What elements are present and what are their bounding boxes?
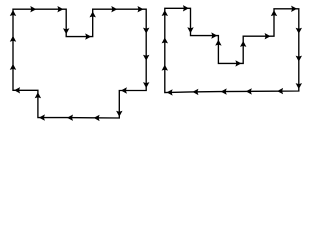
- left polygon arrow right on top edge d: [138, 6, 144, 12]
- right polygon arrow left bottom edge a: [277, 88, 283, 94]
- right polygon arrow up left wall c: [162, 10, 168, 16]
- left polygon arrow left lower-left edge: [14, 87, 20, 93]
- right polygon arrow right mid shelf a: [211, 32, 217, 38]
- right polygon arrow left bottom edge d: [192, 89, 198, 95]
- right polygon arrow right top edge 1: [183, 5, 189, 11]
- right polygon arrow up notch right wall: [240, 41, 246, 47]
- right polygon arrow left bottom edge c: [221, 88, 227, 94]
- left polygon arrow left bottom edge b: [67, 115, 73, 121]
- right polygon arrow left bottom edge b: [246, 88, 252, 94]
- right polygon arrow left bottom edge e: [167, 89, 173, 95]
- right polygon arrow up left wall a: [162, 65, 168, 71]
- left polygon arrow up left edge c: [10, 10, 16, 16]
- left polygon arrow up left edge a: [10, 64, 16, 70]
- left polygon arrow down step right: [116, 111, 122, 117]
- right polygon arrow up to top edge 2: [271, 10, 277, 16]
- left polygon arrow right on top edge c: [111, 6, 117, 12]
- left polygon arrow left bottom edge c: [39, 114, 45, 120]
- right polygon arrow down right edge a: [296, 28, 302, 34]
- right polygon arrow down right edge b: [296, 56, 302, 62]
- left polygon arrow down right edge b: [143, 55, 149, 61]
- left polygon arrow right notch bottom: [85, 33, 91, 39]
- right polygon arrow right top edge 2: [291, 6, 297, 12]
- left polygon arrow down right edge a: [143, 28, 149, 34]
- right polygon arrow right notch bottom: [235, 60, 241, 66]
- right grid polygon outline: [165, 8, 299, 92]
- left polygon arrow left step top: [121, 87, 127, 93]
- left polygon arrow down right edge c: [143, 82, 149, 88]
- left polygon arrow up notch right wall: [90, 11, 96, 17]
- left polygon arrow right on top edge a: [30, 6, 36, 12]
- right polygon arrow up notch left wall: [215, 40, 221, 46]
- left polygon arrow left bottom edge a: [94, 115, 100, 121]
- right polygon arrow down right edge c: [296, 83, 302, 89]
- left polygon arrow right on top edge b: [57, 6, 63, 12]
- right polygon arrow right mid shelf b: [265, 33, 271, 39]
- right polygon arrow up left wall b: [162, 37, 168, 43]
- left polygon arrow down notch left wall: [63, 28, 69, 34]
- left polygon arrow up step left: [35, 92, 41, 98]
- left polygon arrow up left edge b: [10, 36, 16, 42]
- right polygon arrow down upper step: [187, 27, 193, 33]
- left grid polygon outline: [13, 9, 146, 118]
